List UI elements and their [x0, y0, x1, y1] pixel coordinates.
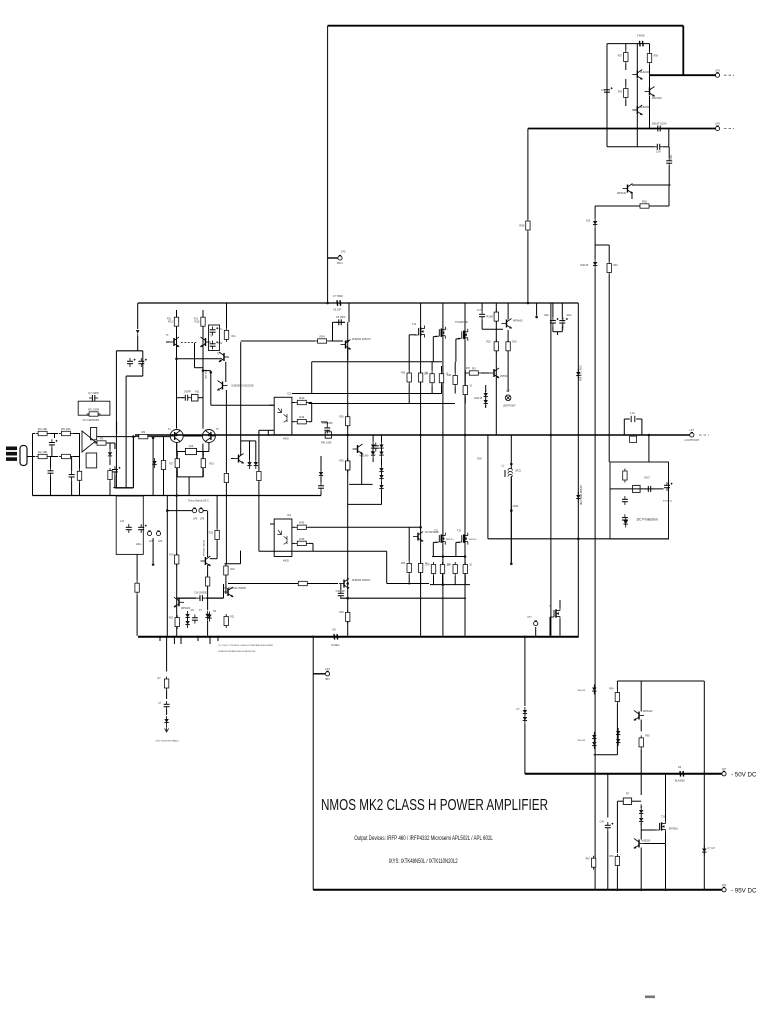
wire v2683: [267, 430, 269, 436]
wire main left edge b: [137, 336, 139, 351]
wire v1334: [132, 437, 134, 488]
trim R31: [192, 394, 199, 401]
wire r30 vb: [408, 385, 410, 404]
svg-text:4n7: 4n7: [477, 309, 482, 312]
wire T3 base rail: [176, 358, 222, 360]
wire outer left edge: [312, 636, 314, 890]
wire dcp inner h: [610, 488, 664, 490]
R41 trim: [325, 432, 331, 438]
wire c16 b: [481, 320, 483, 329]
wire box left: [606, 44, 608, 147]
transistor T17 MPSA62: [623, 184, 634, 194]
wire c14 rail: [177, 597, 197, 599]
wire db3 b: [381, 490, 383, 504]
terminal SW a: [192, 508, 196, 513]
wire db3 m: [381, 459, 383, 466]
wire 95V rail: [313, 889, 722, 891]
svg-text:IC3: IC3: [287, 514, 292, 517]
svg-text:HEATSINK MOUNT: HEATSINK MOUNT: [580, 484, 583, 505]
svg-text:T4: T4: [168, 429, 171, 431]
capacitor C1b: [138, 358, 147, 367]
svg-text:4N35: 4N35: [283, 560, 289, 563]
wire in wire top: [33, 433, 36, 435]
svg-text:MJE350 2N6517: MJE350 2N6517: [352, 579, 371, 582]
R16 emit: [185, 448, 196, 454]
wire VAS supply drop b: [527, 233, 529, 304]
wire top rail drop left: [327, 26, 329, 303]
resistor R24: [315, 334, 329, 343]
wire d2526 m: [640, 805, 642, 809]
wire gate b1 v: [432, 542, 434, 556]
wire T17 em drop: [631, 192, 633, 199]
wire ic3 r45 w: [292, 542, 295, 544]
svg-text:C?: C?: [158, 703, 162, 705]
wire led stub v2: [166, 691, 168, 700]
wire top rail: [328, 25, 684, 27]
wire c5 vb: [71, 480, 73, 495]
resistor R40: [295, 396, 309, 405]
diode DB6: [379, 472, 383, 482]
wire T5 em h: [197, 451, 209, 453]
wire gnd rail: [33, 495, 322, 497]
diode D21: [592, 732, 596, 742]
transistor TB MJE340: [353, 444, 364, 454]
resistor R33: [407, 561, 411, 575]
wire fb join: [113, 487, 133, 489]
wire box top: [607, 43, 650, 45]
svg-text:10: 10: [469, 386, 472, 388]
svg-text:C34: C34: [656, 150, 661, 154]
opto IC3: [274, 519, 292, 557]
wire r37 out: [481, 372, 489, 374]
svg-text:C? 4n7: C? 4n7: [708, 848, 716, 850]
capacitor C33 100nF: [651, 122, 666, 132]
resistor RZ box: [630, 436, 637, 442]
svg-text:10: 10: [469, 565, 472, 567]
wire rg4 b: [464, 397, 466, 403]
node j2: [527, 302, 530, 305]
wire v5113: [510, 476, 512, 564]
svg-text:T12: T12: [412, 323, 417, 326]
resistor R11: [168, 315, 179, 329]
wire r37 in: [465, 372, 467, 374]
svg-text:R29: R29: [339, 461, 344, 463]
resistor R62: [638, 199, 652, 208]
wire v203b: [202, 444, 204, 477]
wire inner v6174b: [616, 704, 618, 755]
svg-text:C?: C?: [199, 610, 203, 612]
wire v2589: [258, 430, 260, 470]
capacitor C17 100u: [550, 317, 559, 326]
diode D1: [108, 449, 112, 459]
svg-text:IXYS: IXTK48N50L / IXTK110N20L: IXYS: IXTK48N50L / IXTK110N20L2: [389, 858, 458, 865]
diode D23: [616, 736, 620, 746]
wire sw drop: [207, 511, 209, 558]
transistor T14 MJE340: [632, 70, 643, 80]
wire ic3 left wire: [259, 550, 292, 552]
node j10: [208, 434, 211, 437]
transistor T6 cascode: [217, 381, 228, 391]
wire L1 out: [510, 477, 512, 564]
wire in wire m1: [50, 433, 58, 435]
svg-text:MPSA62: MPSA62: [643, 710, 653, 713]
resistor R43: [295, 521, 309, 530]
wire T14 col: [636, 44, 638, 71]
resistor R44: [295, 415, 309, 424]
svg-text:IC1 NE5534N: IC1 NE5534N: [83, 418, 100, 422]
diode DB4: [379, 449, 383, 459]
wire v2264: [225, 390, 227, 472]
diode D21b: [592, 739, 596, 749]
svg-text:R58: R58: [654, 56, 659, 58]
wire mirror bottom: [177, 476, 204, 478]
node j8: [442, 555, 445, 558]
capacitor C cluster2: [210, 341, 219, 350]
resistor R15: [135, 581, 139, 595]
svg-text:R45: R45: [299, 537, 305, 541]
wire opamp out2: [106, 442, 115, 444]
resistor R36: [506, 339, 510, 353]
wire vas em: [347, 349, 349, 361]
wire r62b wire: [617, 800, 623, 802]
node j11: [132, 435, 135, 438]
resistor R9: [136, 430, 150, 439]
wire R62 vert up: [668, 185, 670, 206]
transistor T15: [645, 87, 656, 97]
svg-text:LP7: LP7: [689, 428, 694, 432]
capacitor C11: [126, 524, 132, 533]
diode DB5: [379, 465, 383, 475]
node j12: [152, 437, 155, 440]
wire v176b: [176, 444, 178, 636]
diode D 1n4148a: [484, 390, 488, 400]
node j1: [326, 302, 329, 305]
svg-text:47u: 47u: [218, 329, 223, 331]
diode D binky: [523, 707, 527, 717]
diode D20: [592, 685, 596, 695]
capacitor C5: [69, 471, 75, 480]
svg-text:IRF9610: IRF9610: [669, 828, 679, 831]
resistor R37: [467, 366, 481, 375]
svg-text:R18: R18: [210, 464, 215, 466]
wire v6652: [665, 844, 667, 890]
svg-text:R63: R63: [613, 265, 618, 267]
wire v1149: [114, 443, 116, 449]
node gnd dot: [152, 563, 155, 566]
wire c14 rail b: [206, 597, 224, 599]
node j29: [464, 434, 467, 437]
wire 50V drop: [524, 636, 526, 706]
svg-text:1.5u: 1.5u: [630, 412, 635, 415]
wire sw em: [207, 565, 209, 576]
svg-text:C14 2N5550: C14 2N5550: [194, 592, 208, 595]
svg-text:10R: 10R: [447, 565, 452, 567]
wire opamp out: [95, 442, 98, 444]
svg-text:R9: R9: [142, 430, 146, 434]
cap cluster box: [209, 325, 220, 351]
node j19: [616, 889, 619, 892]
svg-text:MJE350 2N5270: MJE350 2N5270: [352, 338, 371, 341]
svg-text:C9 10P: C9 10P: [333, 309, 342, 312]
wire r8b: [109, 482, 111, 496]
svg-text:D10: D10: [586, 221, 591, 223]
wire t24 d: [559, 600, 561, 608]
wire LP6 feed: [528, 128, 716, 130]
svg-text:LP2: LP2: [722, 883, 727, 887]
svg-text:R14: R14: [232, 336, 237, 338]
wire v2108: [210, 372, 212, 405]
svg-text:LOUTPOINT: LOUTPOINT: [684, 438, 699, 442]
resistor R30: [407, 371, 411, 385]
node j16: [524, 636, 527, 639]
wire v6174c: [616, 801, 618, 853]
svg-text:63V: 63V: [218, 343, 223, 345]
resistor R48: [224, 471, 228, 485]
svg-text:MJE340: MJE340: [360, 455, 369, 458]
svg-text:D3: D3: [678, 766, 682, 769]
node j511: [510, 509, 513, 512]
svg-text:47 TRIM: 47 TRIM: [333, 295, 343, 298]
capacitor C18 100u: [559, 317, 568, 326]
wire v4879: [487, 435, 489, 539]
wire gate t10 l: [456, 338, 460, 340]
wire dcp feed: [648, 435, 650, 462]
wire box bottom b: [663, 146, 669, 148]
transistor T 2N5550: [489, 368, 500, 378]
wire lower bus 2: [430, 584, 470, 586]
diode D10: [593, 218, 597, 228]
resistor R25: [296, 581, 310, 585]
svg-text:R30: R30: [401, 373, 406, 375]
wire r9 out: [150, 436, 170, 438]
wire LTP dash: [181, 342, 198, 344]
node j9: [175, 434, 178, 437]
transistor T19 IRF9610: [656, 821, 666, 833]
wire rail 5273: [309, 526, 421, 528]
svg-text:LP?: LP?: [527, 617, 532, 619]
transistor T opto drv: [234, 454, 245, 464]
wire c17 b: [552, 326, 554, 331]
C2 220p: [86, 453, 97, 468]
node j18: [640, 773, 643, 776]
wire sw res v2: [216, 541, 218, 558]
capacitor C dcp: [645, 486, 654, 492]
wire sw right: [203, 510, 207, 512]
svg-text:100u: 100u: [544, 315, 550, 317]
wire T4 em h: [177, 451, 186, 453]
node j7: [419, 526, 422, 529]
diode D7: [185, 618, 189, 628]
node j6: [346, 434, 349, 437]
terminal LP4: [325, 667, 330, 681]
svg-text:MPSA06: MPSA06: [513, 320, 523, 323]
diode DL: [164, 716, 168, 726]
wire v465: [464, 303, 466, 636]
wire L1 t: [510, 464, 512, 469]
opto IC2 innards: [277, 408, 287, 422]
svg-text:R22: R22: [231, 569, 236, 571]
wire v4206: [420, 303, 422, 636]
wire bias h2: [348, 503, 382, 505]
resistor R7: [77, 469, 81, 483]
capacitor CB: [373, 443, 379, 452]
terminal LPS a: [147, 531, 151, 536]
capacitor C10: [338, 590, 344, 599]
svg-text:- 95V DC: - 95V DC: [731, 887, 757, 894]
wire top rail drop right: [682, 26, 684, 75]
svg-text:100nF 100V: 100nF 100V: [651, 122, 666, 126]
wire optodrv v2: [255, 441, 257, 460]
terminal LP6: [715, 122, 720, 131]
svg-text:D?: D?: [517, 709, 521, 711]
wire rg2 t: [441, 366, 443, 371]
wire mpsa06 c: [507, 303, 509, 320]
svg-text:D6: D6: [191, 610, 195, 612]
resistor R5: [59, 427, 73, 436]
transistor T2: [200, 337, 211, 347]
wire zobel loop top a: [624, 418, 630, 420]
wire T4 em: [176, 443, 178, 452]
svg-text:2N5503: 2N5503: [500, 375, 509, 378]
svg-text:47u: 47u: [601, 89, 606, 92]
wire ic3 r43 w: [292, 526, 295, 528]
svg-text:0R22: 0R22: [513, 506, 519, 508]
wire rg4 t: [464, 370, 466, 383]
wire c18 b: [561, 326, 563, 331]
svg-text:4N35: 4N35: [283, 438, 289, 441]
svg-text:95V+: 95V+: [337, 261, 344, 265]
wire rail 5513: [292, 550, 387, 552]
wire 50V drop2: [524, 724, 526, 774]
node j21: [664, 889, 667, 892]
svg-text:MJE350 CASCODE: MJE350 CASCODE: [232, 385, 255, 388]
op-amp U1: [82, 431, 95, 452]
wire c16 t: [481, 303, 483, 311]
transistor T4: [170, 430, 183, 443]
svg-text:D9: D9: [213, 611, 217, 613]
connector J1: [6, 446, 27, 466]
resistor R45: [295, 537, 309, 546]
capacitor C15: [324, 425, 330, 434]
resistor R34: [418, 561, 422, 575]
transistor T1: [169, 337, 180, 347]
label dashed stub LP3: [724, 74, 734, 76]
wire t19 s: [665, 833, 667, 844]
wire gate t9 l: [432, 337, 434, 362]
resistor R4 10K: [36, 427, 50, 436]
svg-text:R62: R62: [642, 199, 648, 203]
transistor T5: [202, 430, 215, 443]
label dashed stub LP6: [724, 128, 734, 130]
R62b box: [623, 798, 631, 805]
wire tail h: [177, 397, 185, 399]
node j4: [202, 369, 205, 372]
wire stub6: [217, 636, 219, 641]
resistor R35: [494, 339, 498, 353]
svg-text:D4C?: D4C?: [644, 478, 651, 480]
wire r45 out: [309, 542, 313, 544]
wire in wire m2: [73, 433, 80, 435]
wire r22 v: [240, 551, 242, 564]
wire r30 h: [409, 334, 416, 336]
wire C35 v: [668, 129, 670, 147]
resistor R21: [224, 614, 228, 628]
wire r22 b: [225, 576, 227, 595]
svg-text:R36: R36: [512, 342, 517, 344]
resistor R71: [615, 690, 619, 704]
svg-text:T23: T23: [457, 530, 462, 533]
wire ic2 r44 w: [292, 421, 295, 423]
wire r62b wire2: [632, 800, 642, 802]
wire T16 col: [636, 79, 638, 106]
svg-text:T2: T2: [210, 336, 213, 338]
wire v5081: [507, 330, 509, 392]
wire h4303: [259, 429, 274, 431]
wire ic2 r40 w: [292, 402, 295, 404]
capacitor C dcp2: [622, 496, 628, 505]
wire fb box left2: [125, 376, 127, 488]
terminal SW b: [199, 508, 203, 513]
wire inner v6174: [616, 681, 618, 690]
wire db3 v: [381, 435, 383, 442]
C decoupling box: [116, 496, 143, 554]
terminal LP5: [337, 255, 344, 265]
diode D6: [185, 611, 189, 621]
svg-text:R56: R56: [519, 224, 525, 228]
svg-text:R41 100K: R41 100K: [321, 442, 332, 445]
svg-text:R64: R64: [609, 689, 614, 691]
node j15: [312, 636, 315, 639]
svg-text:BT50+00: BT50+00: [663, 501, 673, 503]
wire t3 base h: [203, 370, 211, 372]
svg-text:R21: R21: [230, 617, 235, 619]
svg-text:IC2: IC2: [287, 393, 292, 396]
transistor T sw: [200, 556, 211, 566]
svg-text:T5: T5: [216, 429, 219, 431]
wire t19 g: [641, 829, 655, 831]
svg-text:1n5: 1n5: [120, 520, 125, 523]
wire in vert: [32, 434, 34, 496]
capacitor C34: [654, 144, 663, 150]
capacitor C9 10P input cap: [337, 300, 341, 306]
wire 50V rail: [525, 773, 722, 775]
diode DB3: [379, 442, 383, 452]
resistor R57: [624, 50, 628, 64]
transistor T10 IRFP: [458, 329, 468, 341]
resistor RG4: [463, 383, 467, 397]
wire r14t: [226, 303, 228, 328]
svg-text:MJ15032: MJ15032: [652, 97, 663, 100]
terminal LP3: [715, 68, 720, 77]
svg-text:T11 MJE340 2N3055: T11 MJE340 2N3055: [224, 587, 247, 590]
wire r30 v: [408, 335, 410, 371]
resistor R108: [486, 310, 498, 324]
wire vas gate rail: [341, 597, 466, 599]
wire h4052: [211, 404, 274, 406]
wire sw res v: [216, 496, 218, 529]
LED D12: [165, 726, 169, 732]
terminal LP2: [722, 883, 727, 892]
wire d2526 b: [640, 823, 642, 834]
diode D11: [593, 259, 597, 269]
wire led stub v: [166, 636, 168, 672]
svg-text:C7 22PF: C7 22PF: [88, 391, 99, 395]
svg-text:R44: R44: [299, 415, 305, 419]
wire c15 stub2: [321, 421, 327, 423]
wire c1718 stub: [557, 332, 559, 335]
wire stub4: [197, 636, 199, 641]
wire LP3 feed: [650, 74, 717, 76]
